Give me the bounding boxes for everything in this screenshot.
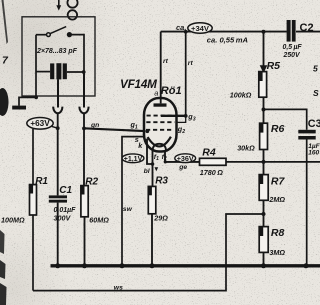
svg-text:3MΩ: 3MΩ	[269, 248, 285, 257]
anode plate	[154, 103, 167, 106]
wire connector2 down to R2	[83, 113, 85, 186]
capacitor C3	[298, 130, 315, 140]
resistor R1	[30, 176, 49, 215]
junction g3 rail	[184, 30, 188, 34]
shield box (dashed enclosure)	[22, 17, 95, 96]
cathode (arc)	[148, 137, 171, 147]
junction (trimmer right / switch column)	[82, 70, 86, 74]
svg-text:rt: rt	[188, 60, 194, 67]
svg-text:C1: C1	[59, 185, 72, 196]
node +63V label oval	[27, 118, 58, 130]
resistor R6	[260, 123, 285, 150]
wire switch right lead to right column	[71, 35, 84, 72]
svg-text:C2: C2	[300, 22, 314, 34]
anode supply rail	[161, 31, 320, 33]
grid g1 (dashed)	[146, 129, 174, 131]
wire anode lead up to rail	[160, 32, 162, 104]
junction (ground tap on inner-left column)	[34, 96, 38, 100]
svg-text:R4: R4	[202, 147, 216, 159]
svg-text:2MΩ: 2MΩ	[268, 195, 285, 204]
wire R4 to output node	[226, 161, 320, 163]
junction bus C1	[55, 263, 60, 268]
junction R5/R6 node	[262, 108, 266, 112]
junction bus C3	[304, 263, 309, 268]
wire g2 lead tied up to g3	[176, 116, 185, 122]
junction R6/R7/output	[262, 160, 266, 164]
svg-text:rt: rt	[163, 58, 169, 65]
wire R7 to R8	[263, 200, 265, 226]
connector P1 (plug cup)	[53, 107, 62, 114]
wire C1 to bus	[57, 203, 59, 266]
wire ws feedback branch	[33, 214, 264, 291]
junction bus sw	[120, 263, 125, 268]
junction +63V node	[56, 126, 60, 130]
svg-text:100kΩ: 100kΩ	[230, 90, 252, 99]
junction f2	[164, 160, 167, 163]
junction g3	[184, 114, 188, 118]
svg-text:ca.: ca.	[176, 23, 186, 32]
svg-text:300V: 300V	[54, 214, 72, 223]
junction R7/R8 (ws tap)	[262, 212, 266, 216]
wire cathode lead down	[147, 139, 153, 164]
junction rail/R5	[262, 30, 266, 34]
switch S (shorting switch)	[47, 27, 72, 37]
wire R6 to node	[263, 150, 265, 175]
junction gn node	[82, 126, 86, 130]
node +36V label oval	[175, 154, 196, 163]
terminal T2 (lower circle)	[68, 10, 77, 19]
resistor R3	[148, 176, 168, 214]
svg-text:1780 Ω: 1780 Ω	[200, 168, 223, 177]
svg-text:29Ω: 29Ω	[153, 213, 168, 222]
svg-text:ca. 0,55 mA: ca. 0,55 mA	[207, 36, 248, 45]
wire rail to R5	[263, 32, 265, 72]
wire R5 to R6	[263, 97, 265, 123]
svg-text:C3: C3	[308, 118, 320, 130]
wire f1 leg down to R3	[152, 151, 154, 187]
wire f2 to R4	[165, 161, 200, 163]
wire s lead to ground bus	[122, 137, 146, 266]
resistor R5	[259, 60, 280, 97]
svg-text:R1: R1	[35, 176, 48, 187]
wire gn / g1 to tube grid	[84, 128, 147, 131]
svg-text:30kΩ: 30kΩ	[237, 143, 255, 152]
junction bus R2	[82, 263, 87, 268]
svg-text:ws: ws	[114, 285, 123, 292]
ground	[12, 106, 26, 110]
svg-text:S: S	[313, 88, 319, 98]
terminal T1 (top circle)	[67, 0, 77, 8]
junction g1 at envelope	[145, 129, 149, 133]
svg-text:0,5 µF: 0,5 µF	[283, 44, 303, 51]
capacitor C1	[49, 195, 67, 202]
wire g3 column	[185, 32, 187, 116]
current arrow on cathode line	[155, 167, 159, 171]
svg-text:R2: R2	[85, 177, 98, 188]
svg-text:60MΩ: 60MΩ	[89, 215, 109, 224]
tube Roe1 envelope	[144, 98, 177, 152]
wire R2 to bus	[84, 217, 86, 266]
arrow (cable entry, pointing down)	[56, 0, 61, 11]
grid g3 (dashed)	[147, 115, 173, 117]
wire trimmer centre plate down to connector 1	[57, 79, 59, 107]
svg-text:160: 160	[308, 150, 319, 157]
wire oval to R1	[32, 129, 34, 185]
junction bus R3	[150, 263, 155, 268]
resistor R2	[81, 177, 99, 217]
capacitor C2	[287, 20, 296, 42]
svg-text:250V: 250V	[283, 52, 301, 59]
grid g2 (dashed)	[146, 121, 174, 123]
svg-text:R5: R5	[267, 60, 281, 72]
svg-text:R7: R7	[271, 176, 286, 188]
wire g3 lead	[161, 115, 186, 117]
wire inner-left column (switch/trimmer to ground tap)	[35, 35, 37, 98]
svg-text:bl: bl	[144, 168, 150, 175]
wire R1 bottom down (ws branch start)	[32, 215, 34, 291]
trimmer capacitor 2x78...83pF (three plates)	[50, 63, 67, 79]
svg-text:R8: R8	[271, 227, 285, 239]
svg-text:+63V: +63V	[30, 119, 50, 128]
wire trimmer left lead	[36, 71, 50, 73]
wire right column down to connector 2	[83, 72, 85, 108]
svg-text:gn: gn	[90, 122, 99, 129]
svg-text:ge: ge	[178, 164, 187, 171]
node +1,1V label oval	[122, 154, 144, 163]
svg-text:Rö1: Rö1	[161, 85, 182, 97]
resistor R4	[200, 147, 227, 166]
wire R8 to bus	[263, 252, 265, 265]
svg-text:+34V: +34V	[191, 24, 210, 33]
svg-text:R6: R6	[271, 123, 285, 135]
svg-text:→7: →7	[0, 55, 9, 67]
wire node to C3	[264, 109, 307, 129]
svg-text:+36V: +36V	[177, 154, 194, 163]
node ca.+34V label oval	[176, 23, 212, 34]
heater filament (arch)	[153, 144, 166, 151]
svg-text:sw: sw	[123, 206, 133, 213]
wire C3 to bus	[306, 140, 308, 266]
ground bus	[51, 264, 320, 267]
current arrow into R5	[260, 65, 268, 73]
wire f2 leg	[164, 151, 166, 162]
resistor R8	[259, 227, 284, 253]
wire to ground	[19, 97, 36, 105]
svg-text:VF14M: VF14M	[120, 78, 157, 91]
svg-text:a: a	[154, 89, 158, 98]
wire connector1 down to C1	[57, 113, 59, 195]
svg-text:5: 5	[313, 64, 318, 74]
wire R3 to bus	[151, 214, 153, 266]
junction bus R8	[261, 263, 266, 268]
connector P2 (plug cup)	[79, 107, 88, 114]
svg-text:2×78...83 pF: 2×78...83 pF	[36, 48, 78, 55]
wire switch left lead	[36, 34, 47, 36]
svg-text:100MΩ: 100MΩ	[1, 216, 25, 225]
resistor R7	[259, 175, 285, 201]
wire trimmer right lead	[67, 71, 84, 73]
junction k/f1	[151, 162, 155, 166]
svg-text:+1,1V: +1,1V	[124, 156, 143, 163]
svg-text:R3: R3	[155, 176, 168, 187]
